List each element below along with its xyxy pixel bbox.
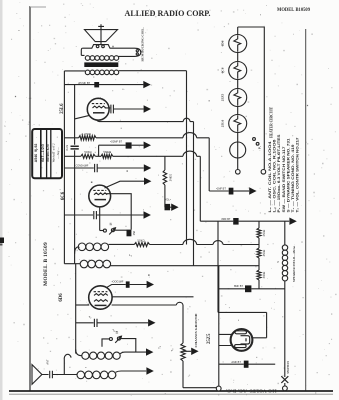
svg-text:•OOO1MF: •OOO1MF (112, 281, 124, 284)
svg-text:T₃: T₃ (170, 349, 174, 352)
svg-text:•05 MF BT: •05 MF BT (78, 81, 91, 85)
wire row 221 B+ (200, 220, 233, 222)
wire row 284.5 grid cap (105, 285, 126, 289)
node arrow row 371 (146, 367, 153, 374)
tube 6D6 envelope (89, 286, 112, 309)
label SW2 (116, 331, 118, 333)
switch SW2 right lead (120, 339, 135, 353)
svg-text:•1 47OΩ: •1 47OΩ (81, 132, 91, 136)
output transformer primary winding (bottom row) (85, 70, 118, 75)
wire cap to field line row 288.8 (251, 288, 284, 290)
svg-text:S — DYNAMIC SPEAKER NO. 731: S — DYNAMIC SPEAKER NO. 731 (286, 138, 290, 212)
svg-text:ANT: ANT (46, 359, 50, 365)
svg-text:HEATER CIRCUIT: HEATER CIRCUIT (270, 106, 274, 138)
primary right lead row 371 (116, 371, 147, 372)
svg-text:25Z5: 25Z5 (207, 333, 212, 344)
svg-text:HUM BUCKING COIL.: HUM BUCKING COIL. (141, 27, 145, 61)
node arrow row 84.6 (143, 81, 150, 88)
25L6 heater zigzag (93, 106, 106, 108)
heater tube 6C6 (229, 62, 247, 80)
band switch SW1 contacts (103, 229, 106, 232)
stamp divider 2 (46, 130, 48, 178)
svg-text:•O2MF BT: •O2MF BT (110, 139, 123, 143)
tube 6C6 envelope (89, 185, 111, 207)
svg-text:T₂ — VOL. CONTR SWITCH NO.217: T₂ — VOL. CONTR SWITCH NO.217 (296, 137, 300, 212)
node arrow row 182.6 (144, 178, 151, 185)
25L6 plate bar (93, 112, 105, 114)
AC plug terminal right (283, 386, 288, 391)
svg-text:No 461 λ₂•5: No 461 λ₂•5 (46, 144, 50, 162)
capacitor .02MF (black) (126, 142, 132, 148)
frame top-left stub (30, 6, 46, 8)
wire row 221 to field and arrow (239, 220, 290, 222)
wire 25L6 bottom lead (97, 120, 105, 122)
band switch SW2 lever (115, 336, 121, 343)
output transformer secondary winding (top row) (85, 56, 118, 61)
svg-text:•1MF BT: •1MF BT (216, 188, 226, 191)
wire row 84.6 (.05MF to grid) (64, 84, 143, 86)
schematic frame right border (305, 29, 307, 391)
osc coil upper left lead (75, 247, 79, 254)
page edge dark blotch (0, 238, 4, 244)
second rail lower section (75, 264, 77, 354)
bias line to bottom (183, 361, 216, 388)
label SW1 (110, 223, 112, 225)
chassis ground stub (183, 350, 191, 352)
6C6 plate lead to arrow (105, 181, 145, 188)
line switch (X) (281, 376, 288, 383)
svg-text:33OΩ: 33OΩ (263, 272, 266, 279)
svg-text:CHASSIS GROUND: CHASSIS GROUND (194, 312, 198, 347)
6C6 heater zigzag (94, 193, 107, 195)
wire cap to arrow row 145 (132, 144, 144, 146)
hum bucking coil terminal box (119, 48, 141, 56)
svg-text:P₁ — 15Oᴍᴀ. 6.3 VOLT PILOT-LIT: P₁ — 15Oᴍᴀ. 6.3 VOLT PILOT-LITES (277, 134, 281, 213)
svg-text:A546 9|-92: A546 9|-92 (34, 144, 38, 163)
node arrow row 191 (249, 187, 256, 194)
bus V5 (217, 221, 219, 312)
wire cap191 to arrow (233, 190, 249, 192)
node arrow row 145 (144, 142, 151, 149)
heater tube 25Z5 (229, 89, 247, 107)
band switch SW2 left lead (102, 339, 109, 347)
6D6 plate bar (95, 304, 107, 306)
svg-text:25L6: 25L6 (60, 103, 65, 114)
wire transformer B+ lead (119, 70, 187, 72)
wire row 137.8 screen feed (96, 133, 209, 191)
svg-text:11O VOLTS AC.-D.C.: 11O VOLTS AC.-D.C. (226, 388, 277, 393)
wire row 265.7 to divider (111, 265, 260, 267)
switch SW1 output to padder cap (114, 229, 126, 231)
AC plug terminal left (216, 386, 221, 391)
svg-text:25L6: 25L6 (221, 120, 225, 128)
svg-text:6D6: 6D6 (221, 40, 225, 46)
rail corner into lower winding (64, 263, 80, 265)
25Z5 anode leads left (219, 334, 231, 345)
node arrow row 109 (144, 105, 151, 112)
service stamp box (32, 129, 62, 178)
node arrow row 322.8 (148, 319, 155, 326)
wire row 244.5 to divider (150, 239, 259, 244)
grid hook riser (64, 354, 71, 374)
wire volume tap riser (99, 145, 126, 156)
speaker field coil winding (282, 245, 287, 281)
band switch SW1 lever (109, 228, 115, 235)
voice coil dots (96, 45, 99, 48)
svg-text:MODEL B 10509: MODEL B 10509 (43, 242, 49, 286)
padder capacitor (black) (127, 230, 132, 237)
antenna wire to coil (52, 374, 77, 376)
6D6 zigzag lower (94, 300, 108, 302)
svg-text:SWITCH: SWITCH (286, 361, 290, 374)
svg-text:6C6: 6C6 (61, 191, 66, 200)
node arrow row 221 (289, 218, 296, 225)
svg-text:•1MF BT: •1MF BT (231, 361, 241, 364)
stamp divider 3 (50, 130, 52, 178)
secondary right lead row 352 (120, 352, 146, 354)
svg-text:8MF BT: 8MF BT (234, 285, 243, 288)
antenna symbol (32, 365, 42, 385)
node arrow row 352 (146, 348, 153, 355)
svg-text:25Ω: 25Ω (133, 231, 136, 236)
25Z5 plate bar bottom (235, 345, 247, 348)
speaker center pole (98, 24, 104, 44)
tube 25L6 envelope (87, 98, 109, 120)
band switch SW2 contacts (109, 338, 112, 341)
resistor 50K (64, 154, 95, 158)
bus V2 (193, 122, 195, 266)
speaker voice-coil dome (83, 45, 135, 49)
speaker frame sides (81, 48, 84, 55)
svg-text:ALLIED RADIO CORP.: ALLIED RADIO CORP. (125, 9, 211, 18)
svg-text:P₁: P₁ (258, 146, 262, 149)
capacitor on second rail (71, 146, 79, 149)
second rail corner into secondary (76, 350, 82, 356)
speaker field lead lower (284, 281, 286, 377)
svg-text:T₁ — TUNING COND. NO. 419: T₁ — TUNING COND. NO. 419 (291, 144, 295, 212)
svg-text:VOL•: VOL• (165, 198, 171, 202)
6C6 grid cap lead (107, 194, 132, 230)
svg-text:6C6: 6C6 (221, 67, 225, 73)
ant coil primary winding (77, 371, 116, 379)
6C6 plate bar (95, 199, 107, 201)
6D6 zigzag upper (94, 294, 108, 296)
wire row 364 with capacitor (219, 363, 244, 365)
wire VOL cap to arrow (170, 206, 171, 208)
capacitor 8MF (black) row 288.8 (245, 285, 251, 292)
wire cap to arrow row 284.5 (130, 284, 147, 286)
wire transformer return to rail (64, 70, 85, 72)
svg-text:2MEG: 2MEG (168, 174, 172, 181)
page bottom rule (thick) (9, 390, 333, 392)
6D6 grid dashed (94, 291, 108, 293)
capacitor VOL (black) (165, 204, 171, 210)
wire row 322.8 with capacitor (76, 319, 148, 327)
tube 25Z5 envelope (231, 329, 253, 351)
svg-text:T₁: T₁ (157, 346, 161, 349)
pilot lamp (230, 142, 246, 158)
svg-text:L₂ — OSC. COIL NO. R.1OO6: L₂ — OSC. COIL NO. R.1OO6 (273, 139, 277, 212)
svg-text:O•1M: O•1M (66, 145, 69, 151)
heater circuit top wire (238, 27, 265, 169)
node arrow row 284.5 (147, 281, 154, 288)
svg-text:6D6: 6D6 (59, 293, 64, 302)
speaker field lead upper (284, 221, 286, 245)
wire V5 corner to rectifier (218, 312, 267, 337)
svg-text:T₃: T₃ (112, 329, 115, 333)
6D6 cathode row 305 right with jog (112, 302, 183, 343)
svg-text:6A7—1•2•3: 6A7—1•2•3 (41, 144, 45, 162)
6C6 cathode lead down (99, 207, 101, 231)
25Z5 cathode structure (241, 336, 250, 344)
svg-text:L₁ — ANT. COIL NO.A.1OO4: L₁ — ANT. COIL NO.A.1OO4 (268, 141, 272, 212)
band switch SW1 wire (100, 230, 104, 232)
svg-text:T₂: T₂ (89, 315, 92, 319)
wire row 215 with capacitor (64, 211, 143, 219)
antenna series capacitor (42, 371, 53, 378)
svg-text:COND•1MF: COND•1MF (76, 165, 89, 168)
node arrow VOL row 207 (171, 204, 178, 211)
wire cap to right row 364 (249, 363, 276, 365)
svg-text:½MEG: ½MEG (103, 150, 111, 154)
wire second rail (74, 85, 76, 264)
resistor 470 ohm (64, 136, 96, 140)
capacitor row 221 (black) (233, 218, 238, 225)
schematic frame left border (29, 7, 31, 391)
left page-edge shadow band (0, 0, 3, 400)
heater tube 25L6 (229, 115, 247, 133)
svg-text:5OKΩ: 5OKΩ (137, 238, 144, 242)
speaker cone (85, 30, 118, 42)
heater string terminal left (236, 170, 241, 175)
resistor T3 bias (vertical) (181, 343, 185, 361)
heater chain wire (237, 27, 239, 169)
wire row 156.3 AVC bus (113, 151, 201, 221)
wire row 168 with capacitor (64, 164, 143, 172)
node arrow row 168 (144, 164, 151, 171)
capacitor row 191 (black) (229, 188, 234, 195)
svg-text:S: S (276, 261, 280, 263)
node arrow row 215 (144, 211, 151, 218)
25L6 grid (dashed) (92, 103, 105, 105)
wire 25L6 left lead (75, 115, 90, 119)
svg-text:8MF BT: 8MF BT (222, 218, 231, 221)
wire row 121.6 to bus (104, 118, 194, 121)
wire row 288.8 filter (218, 288, 245, 290)
resistor half-meg (95, 154, 113, 158)
voltage divider resistor chain (257, 221, 261, 289)
osc coil upper winding (78, 243, 108, 251)
osc coil lower winding (80, 260, 110, 268)
wire left rail (main) (63, 71, 65, 264)
switch lead to plug (284, 383, 286, 386)
6D6 diode plate lead right (112, 296, 194, 298)
resistor 50K plate (134, 243, 149, 247)
heater tube 6D6 (229, 35, 247, 53)
svg-text:SPEAKER FIELD—45Oω: SPEAKER FIELD—45Oω (292, 245, 296, 282)
6D6 cathode row 305 left (76, 304, 90, 306)
capacitor .05MF (black) (94, 82, 99, 87)
rectifier rail left (218, 266, 220, 387)
capacitor .1MF (black) row 364 (244, 361, 249, 368)
transformer iron core (dark bar) (84, 62, 118, 67)
wire coil to resistor row 244.5 (109, 243, 135, 245)
capacitor .0001MF (black) (126, 281, 130, 287)
25L6 cathode lead + coupling capacitor (105, 105, 144, 114)
svg-text:— Aug —: — Aug — (56, 147, 60, 160)
svg-text:25OΩ: 25OΩ (263, 230, 266, 237)
svg-text:25Z5: 25Z5 (221, 94, 225, 102)
pilot lamp terminal dots P.L. (253, 138, 256, 141)
svg-text:SW — BAND SWITCH NO.117: SW — BAND SWITCH NO.117 (282, 146, 286, 212)
svg-text:45OΩ: 45OΩ (263, 250, 266, 257)
25Z5 plate bar top (235, 331, 247, 334)
page bottom rule (thin) (9, 393, 333, 395)
volume control tap wire (164, 206, 166, 208)
svg-text:MODEL B10509: MODEL B10509 (277, 8, 310, 13)
heater string terminal right (261, 170, 266, 175)
ant coil secondary winding (82, 352, 120, 359)
stamp divider 1 (40, 130, 42, 178)
hum bucking coil terminal dots (136, 50, 138, 52)
bus V1 from transformer (186, 71, 188, 245)
svg-text:5OKΩ: 5OKΩ (84, 150, 91, 154)
node arrow chassis ground (191, 348, 198, 355)
resistor 2 MEG (vertical) (163, 156, 167, 207)
6C6 grid (dashed) (93, 189, 106, 191)
wire row 191 (209, 190, 229, 192)
